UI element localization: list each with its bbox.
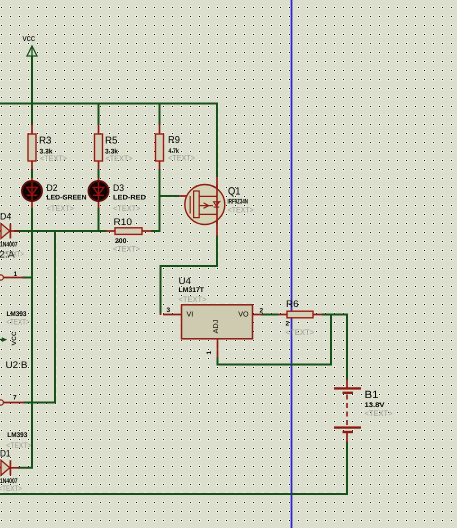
svg-text:IRF9Z34N: IRF9Z34N	[228, 199, 249, 206]
svg-text:<TEXT>: <TEXT>	[113, 204, 141, 213]
svg-text:LED-RED: LED-RED	[113, 195, 146, 202]
svg-text:ADJ: ADJ	[213, 320, 220, 334]
svg-text:D3: D3	[113, 183, 124, 194]
svg-text:LM393: LM393	[7, 432, 27, 439]
svg-text:R9: R9	[168, 135, 180, 146]
svg-text:7: 7	[13, 395, 17, 402]
svg-text:D2: D2	[47, 183, 58, 194]
svg-text:R6: R6	[286, 299, 299, 310]
svg-text:<TEXT>: <TEXT>	[286, 328, 315, 337]
svg-text:D1: D1	[0, 449, 11, 460]
svg-text:Q1: Q1	[228, 186, 241, 198]
svg-text:LED-GREEN: LED-GREEN	[47, 195, 87, 202]
svg-text:<TEXT>: <TEXT>	[40, 154, 67, 163]
svg-text:R10: R10	[114, 217, 133, 228]
svg-text:<TEXT>: <TEXT>	[0, 484, 22, 493]
svg-text:<TEXT>: <TEXT>	[6, 441, 31, 450]
svg-text:B1: B1	[365, 389, 379, 401]
svg-text:VI: VI	[187, 310, 194, 319]
svg-text:LM317T: LM317T	[179, 287, 205, 294]
svg-text:vcc: vcc	[23, 33, 36, 43]
svg-text:1N4007: 1N4007	[0, 242, 18, 249]
svg-text:vcc: vcc	[9, 332, 18, 346]
svg-text:U4: U4	[179, 276, 192, 287]
svg-text:<TEXT>: <TEXT>	[6, 318, 30, 327]
svg-text:<TEXT>: <TEXT>	[113, 245, 140, 254]
svg-text:R3: R3	[39, 136, 52, 147]
svg-text:13.8V: 13.8V	[365, 402, 386, 409]
svg-text:1: 1	[14, 271, 18, 278]
svg-text:<TEXT>: <TEXT>	[179, 295, 207, 304]
svg-text:R5: R5	[105, 136, 118, 147]
svg-text:2: 2	[260, 308, 264, 315]
svg-text:D4: D4	[0, 212, 11, 223]
svg-text:<TEXT>: <TEXT>	[168, 154, 195, 163]
svg-text:2: 2	[286, 321, 290, 328]
svg-text:U2:B: U2:B	[6, 360, 28, 371]
svg-text:3: 3	[167, 307, 171, 314]
svg-text:<TEXT>: <TEXT>	[47, 204, 75, 213]
svg-text:1: 1	[206, 351, 213, 355]
svg-text:<TEXT>: <TEXT>	[106, 154, 133, 163]
svg-text:<TEXT>: <TEXT>	[228, 206, 254, 215]
svg-text:<TEXT>: <TEXT>	[2, 250, 24, 259]
svg-text:VO: VO	[238, 310, 249, 319]
svg-text:<TEXT>: <TEXT>	[365, 409, 393, 418]
